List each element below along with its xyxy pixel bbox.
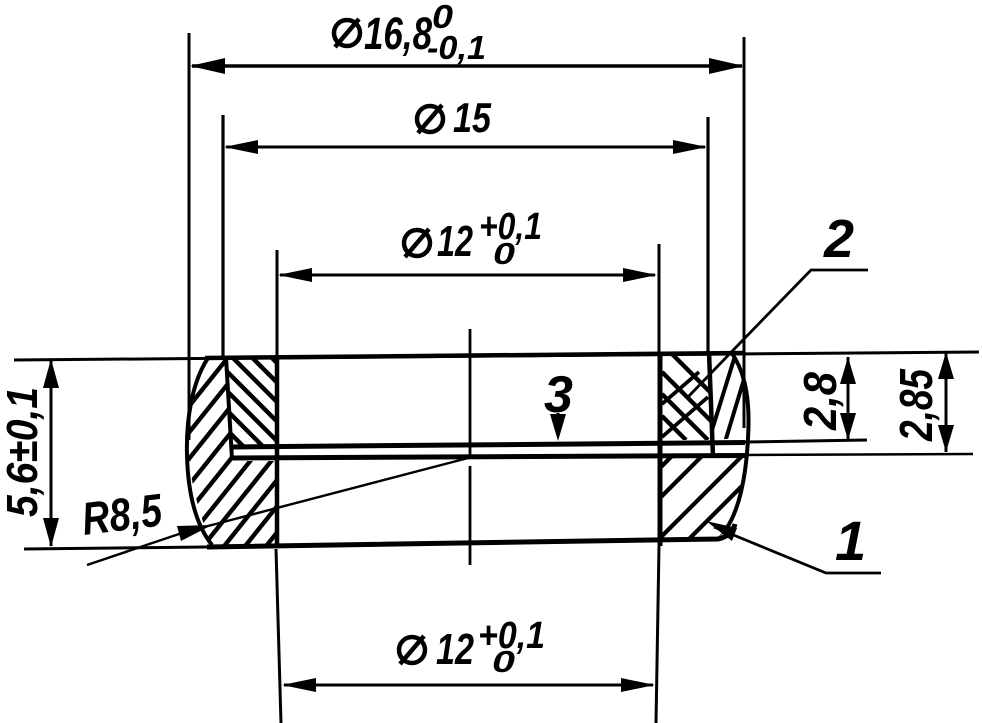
svg-text:5,6±0,1: 5,6±0,1 (0, 387, 47, 517)
svg-text:15: 15 (453, 94, 492, 141)
svg-text:2: 2 (823, 209, 854, 269)
svg-text:0: 0 (492, 644, 515, 679)
svg-text:2,8: 2,8 (794, 372, 846, 431)
svg-text:16,8: 16,8 (364, 8, 432, 59)
svg-text:R8,5: R8,5 (79, 483, 166, 545)
svg-text:0: 0 (493, 236, 515, 271)
svg-text:1: 1 (835, 509, 866, 572)
svg-text:12: 12 (437, 217, 473, 266)
svg-text:12: 12 (436, 625, 474, 674)
svg-text:2,85: 2,85 (890, 368, 942, 442)
svg-text:-0,1: -0,1 (427, 29, 486, 66)
